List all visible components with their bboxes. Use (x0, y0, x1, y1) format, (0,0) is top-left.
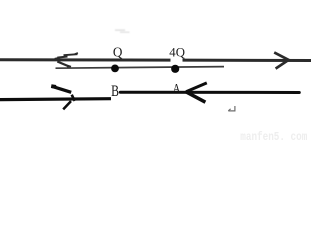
right arrowhead on top field line (274, 52, 288, 68)
left-pointing arrowhead on bottom right segment (186, 83, 207, 102)
bottom line left segment (0, 97, 111, 101)
top field line right segment (183, 59, 312, 62)
thin charge baseline (56, 67, 225, 69)
bottom line right segment (120, 91, 299, 94)
svg-text:manfen5. com: manfen5. com (240, 131, 307, 142)
svg-text:Q: Q (113, 44, 123, 59)
right-pointing arrowhead on bottom left segment (51, 86, 74, 109)
svg-text:4Q: 4Q (169, 46, 185, 60)
faint pencil smudge (115, 29, 130, 33)
left arrowhead on top field line (55, 53, 78, 67)
charge Q dot (111, 65, 119, 73)
svg-text:B: B (111, 82, 119, 99)
svg-text:A: A (173, 82, 181, 96)
charge 4Q dot (171, 65, 179, 73)
paragraph return mark (228, 106, 235, 111)
top field line left segment (0, 58, 171, 61)
